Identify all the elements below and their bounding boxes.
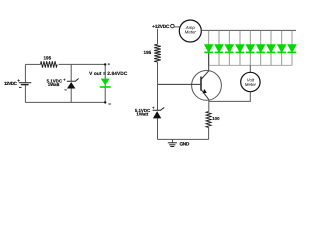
svg-text:+: + xyxy=(17,78,20,83)
svg-text:Meter: Meter xyxy=(245,82,257,87)
svg-text:195: 195 xyxy=(144,50,152,55)
svg-text:1Watt: 1Watt xyxy=(136,111,148,116)
svg-text:V out = 2.84VDC: V out = 2.84VDC xyxy=(89,71,128,77)
svg-text:12VDC: 12VDC xyxy=(4,81,18,86)
svg-text:+: + xyxy=(152,105,155,110)
svg-text:+: + xyxy=(63,77,66,82)
svg-text:+12VDC: +12VDC xyxy=(152,24,170,30)
svg-text:Meter: Meter xyxy=(185,29,197,34)
svg-text:1Watt: 1Watt xyxy=(48,82,60,87)
svg-text:195: 195 xyxy=(43,55,51,60)
svg-text:GND: GND xyxy=(180,142,190,148)
svg-text:100: 100 xyxy=(212,116,220,121)
svg-text:+: + xyxy=(108,62,111,67)
